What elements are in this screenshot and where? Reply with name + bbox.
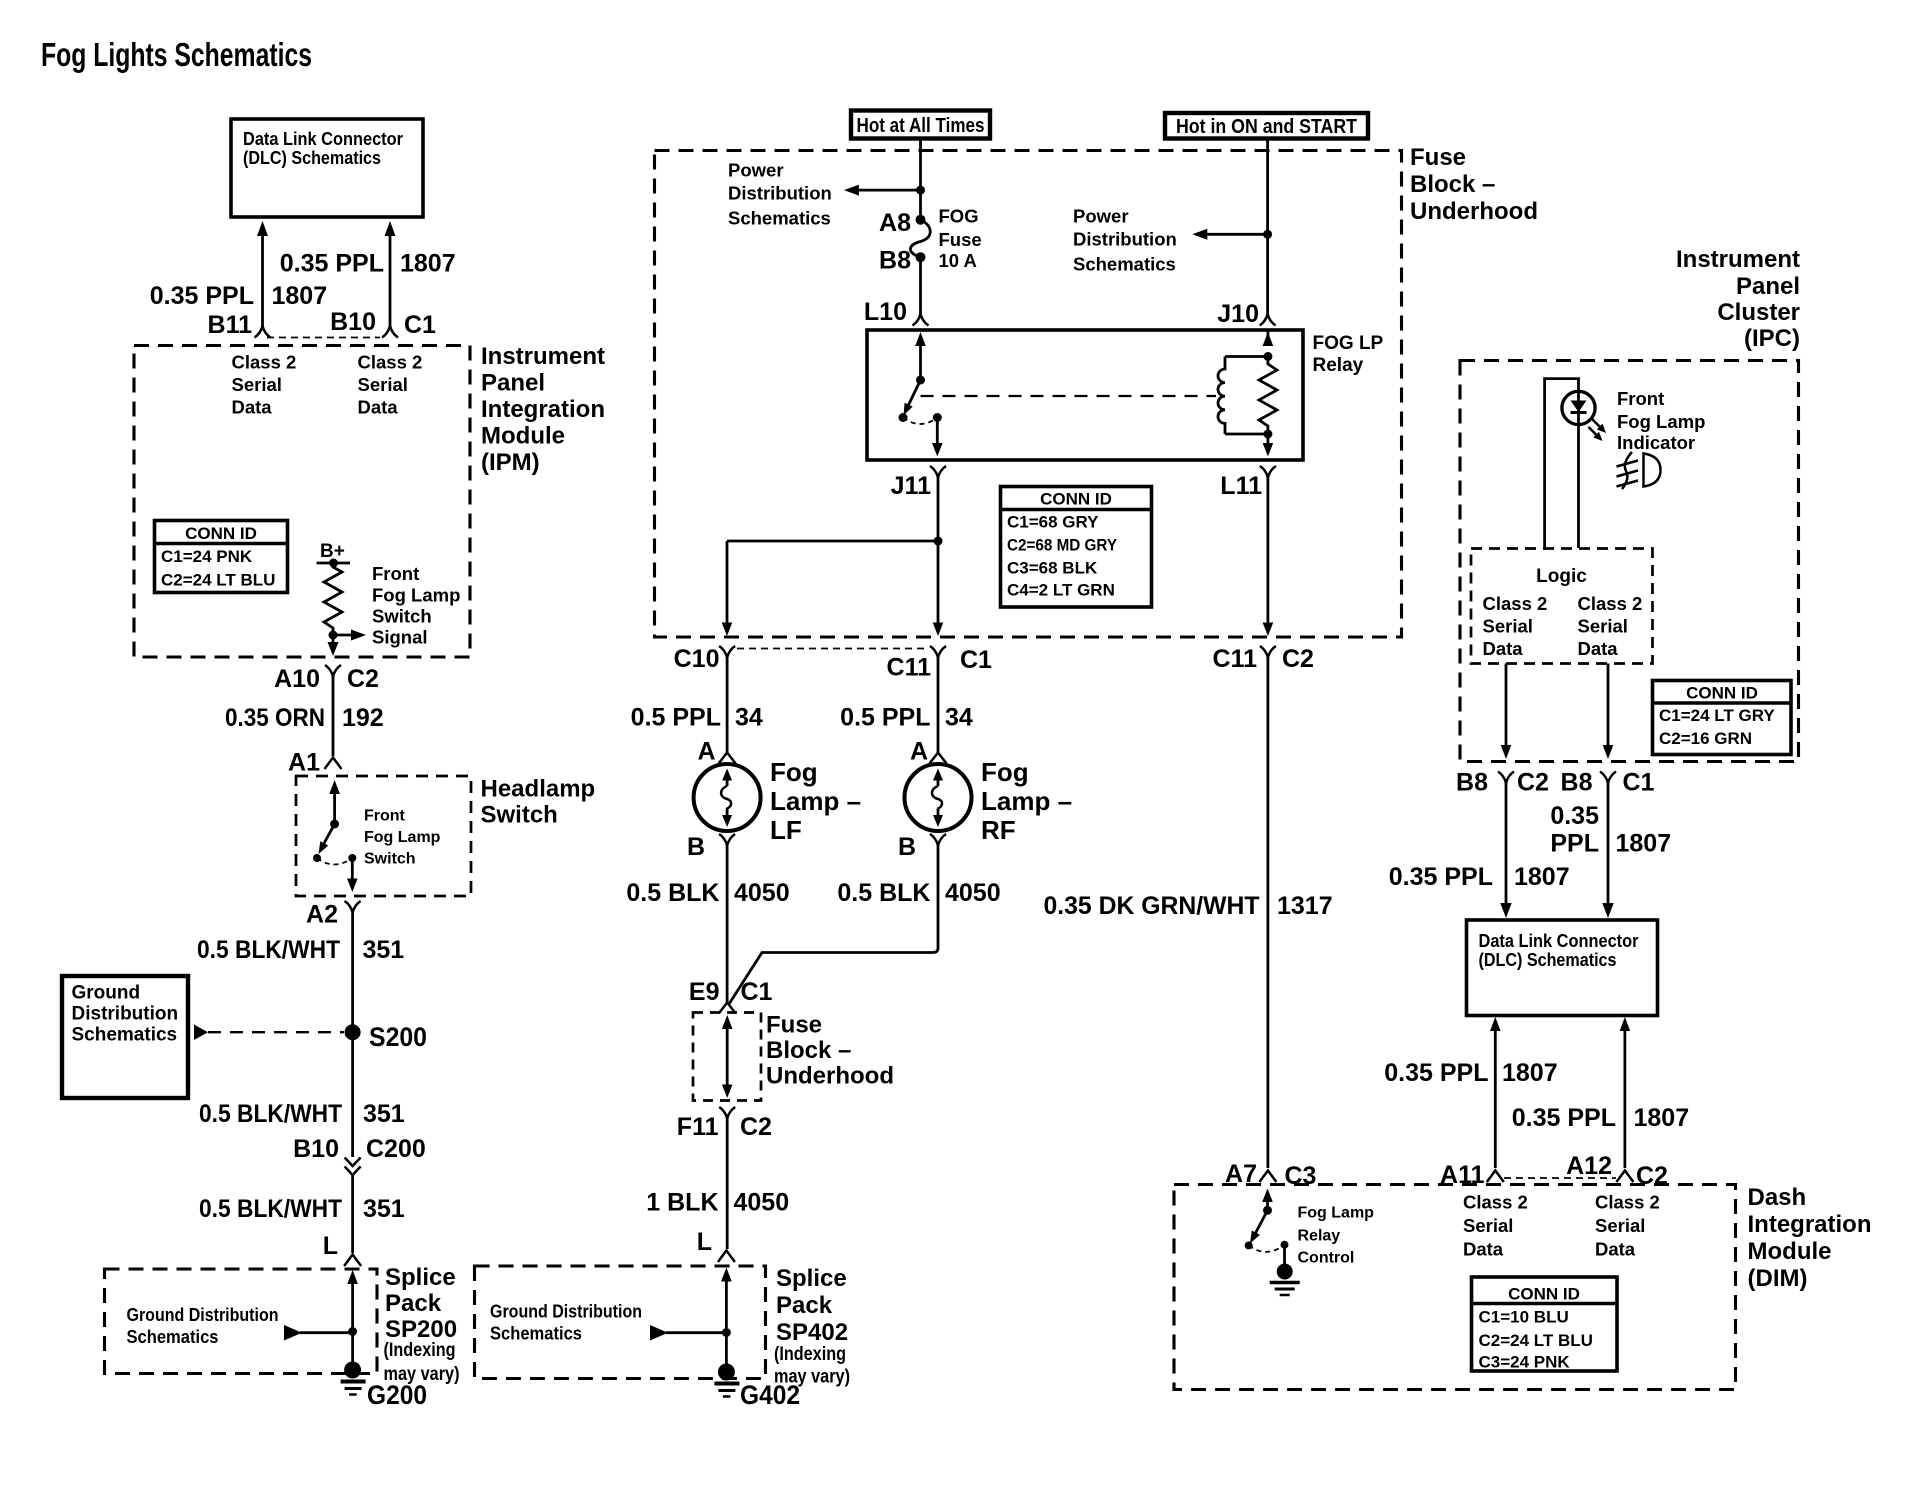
label Headlamp Switch [481, 776, 596, 829]
Splice Pack SP200 box [105, 1269, 378, 1374]
svg-text:Fog Lamp: Fog Lamp [1617, 411, 1705, 432]
svg-text:1807: 1807 [1616, 830, 1672, 858]
label 0.5 PPL 34 (LF) [631, 704, 763, 732]
connector fork J11 [930, 466, 946, 478]
connector fork B (LF) [719, 834, 735, 846]
relay resistor [1259, 330, 1277, 457]
svg-text:Schematics: Schematics [490, 1323, 582, 1344]
svg-text:E9: E9 [689, 978, 720, 1006]
svg-text:B8: B8 [1561, 769, 1593, 797]
svg-text:C3=24 PNK: C3=24 PNK [1479, 1353, 1571, 1372]
label FOG LP Relay [1313, 333, 1384, 376]
svg-text:Underhood: Underhood [766, 1063, 894, 1090]
label Dash Integration Module (DIM) [1748, 1184, 1872, 1292]
wire A10 to A1 [332, 677, 335, 757]
ground G402 [714, 1364, 800, 1411]
connector chevron L (SP200) [344, 1255, 361, 1267]
label Ground Distribution Schematics (SP200) [127, 1304, 279, 1347]
svg-text:S200: S200 [369, 1022, 427, 1052]
svg-text:Pack: Pack [385, 1290, 442, 1317]
svg-text:Integration: Integration [1748, 1211, 1872, 1238]
relay dashed link [921, 395, 1217, 397]
connector chevron A7 [1259, 1171, 1276, 1183]
svg-text:J10: J10 [1217, 300, 1259, 328]
svg-text:A: A [697, 738, 715, 766]
svg-text:Data: Data [1578, 638, 1619, 659]
svg-text:may vary): may vary) [384, 1364, 460, 1385]
svg-text:C11: C11 [887, 654, 932, 682]
wire B8/C1 to DLC [1602, 783, 1613, 918]
wire B10 to DLC left [385, 221, 396, 326]
wire B8 to L10 [919, 257, 922, 314]
svg-text:Front: Front [372, 563, 419, 584]
svg-text:Logic: Logic [1536, 566, 1587, 587]
svg-text:351: 351 [363, 936, 405, 964]
fog lamp pictogram [1617, 452, 1661, 489]
label Front Fog Lamp Indicator [1617, 388, 1705, 453]
svg-text:Fog Lights Schematics: Fog Lights Schematics [41, 36, 312, 73]
svg-text:SP200: SP200 [385, 1316, 457, 1343]
svg-text:C2=24 LT BLU: C2=24 LT BLU [1479, 1331, 1593, 1350]
svg-text:L: L [323, 1232, 338, 1260]
connector fork B10/C1 [382, 326, 398, 338]
label 0.35 PPL 1807 (A11 wire) [1384, 1059, 1557, 1087]
svg-text:A1: A1 [288, 749, 320, 777]
Instrument Panel Integration Module box [134, 346, 470, 658]
label Front Fog Lamp Switch [364, 808, 441, 868]
svg-text:Hot in ON and START: Hot in ON and START [1176, 115, 1357, 138]
svg-text:Relay: Relay [1298, 1228, 1341, 1245]
svg-text:0.5 PPL: 0.5 PPL [840, 704, 930, 732]
svg-text:0.5 BLK: 0.5 BLK [626, 879, 719, 907]
svg-text:Switch: Switch [372, 606, 432, 627]
label 0.5 BLK/WHT 351 [199, 1195, 405, 1223]
svg-text:1807: 1807 [272, 282, 328, 310]
svg-text:CONN ID: CONN ID [1686, 684, 1758, 703]
svg-text:Class 2: Class 2 [1483, 593, 1548, 614]
svg-text:B11: B11 [208, 311, 253, 339]
svg-text:Instrument: Instrument [481, 343, 605, 370]
svg-text:A12: A12 [1566, 1152, 1612, 1180]
svg-text:C1=24 PNK: C1=24 PNK [161, 547, 253, 566]
svg-text:C2: C2 [740, 1113, 772, 1141]
wire B LF down to E9 [726, 846, 729, 1004]
connector dashed line IPM top [267, 337, 380, 339]
Hot in ON and START box [1165, 113, 1368, 139]
svg-text:Block –: Block – [1410, 171, 1495, 198]
svg-text:A8: A8 [879, 209, 911, 237]
connector chevron A11 [1487, 1171, 1504, 1183]
svg-text:C2: C2 [1517, 769, 1549, 797]
label 0.35 PPL 1807 (B11 wire) [150, 282, 327, 310]
svg-text:B8: B8 [1456, 769, 1488, 797]
wire A12 up to DLC [1620, 1017, 1631, 1168]
svg-text:C1: C1 [404, 311, 436, 339]
svg-text:1807: 1807 [1514, 863, 1570, 891]
label Power Distribution Schematics (left) [728, 160, 832, 229]
svg-text:B8: B8 [879, 246, 911, 274]
connector fork L10 [913, 314, 929, 326]
wire C11 to fog lamp RF [937, 658, 940, 756]
wire hot-in-on down [1263, 139, 1272, 315]
svg-text:(DIM): (DIM) [1748, 1265, 1808, 1292]
svg-text:C1=10 BLU: C1=10 BLU [1479, 1308, 1569, 1327]
wire hot-at-all-times down [916, 139, 925, 220]
fog lamp relay control switch (DIM) [1245, 1189, 1289, 1265]
Ground Distribution Schematics box [62, 976, 188, 1098]
Splice Pack SP402 box [475, 1266, 766, 1379]
splice node S200 [345, 1022, 427, 1052]
connector fork C10 [719, 646, 735, 658]
svg-text:Ground: Ground [72, 983, 141, 1004]
svg-text:CONN ID: CONN ID [1040, 490, 1112, 509]
connector fork B8/C2 [1498, 772, 1514, 784]
label 0.5 PPL 34 (RF) [840, 704, 973, 732]
fog lamp LF [694, 764, 761, 831]
svg-text:C1=24 LT GRY: C1=24 LT GRY [1659, 706, 1775, 725]
wire J11 down with branch [722, 478, 944, 637]
svg-text:Serial: Serial [1595, 1215, 1645, 1236]
CONN ID table (DIM) [1472, 1277, 1618, 1372]
svg-text:A10: A10 [274, 665, 320, 693]
svg-text:Schematics: Schematics [728, 208, 831, 229]
label Fuse Block - Underhood (small) [766, 1012, 894, 1090]
svg-text:B: B [687, 833, 705, 861]
svg-text:Module: Module [481, 423, 565, 450]
svg-text:4050: 4050 [734, 879, 790, 907]
wire L11 down [1263, 478, 1274, 637]
LED front fog lamp indicator [1562, 391, 1595, 424]
svg-text:Data: Data [1463, 1239, 1504, 1260]
svg-text:Underhood: Underhood [1410, 198, 1538, 225]
svg-text:FOG LP: FOG LP [1313, 333, 1384, 354]
label Power Distribution Schematics (right) [1073, 206, 1177, 275]
Headlamp Switch box [296, 776, 471, 896]
label 0.5 BLK/WHT 351 [199, 1100, 405, 1128]
connector chevron A12 [1616, 1171, 1633, 1183]
wire A11 up to DLC [1490, 1017, 1501, 1168]
CONN ID table (IPM) [155, 521, 288, 593]
svg-text:0.35 PPL: 0.35 PPL [280, 250, 384, 278]
svg-text:Distribution: Distribution [1073, 229, 1177, 250]
svg-text:Signal: Signal [372, 627, 428, 648]
connector fork F11/C2 [719, 1107, 735, 1119]
relay coil [1218, 352, 1272, 439]
svg-text:C3=68 BLK: C3=68 BLK [1007, 559, 1098, 578]
node B+ [317, 541, 351, 568]
relay switch [899, 332, 943, 457]
svg-text:Fog Lamp: Fog Lamp [1298, 1205, 1375, 1222]
label Instrument Panel Integration Module (IPM) [481, 343, 605, 476]
label Class 2 Serial Data (IPC left) [1483, 593, 1548, 659]
svg-text:1807: 1807 [1634, 1104, 1690, 1132]
svg-text:0.35 ORN: 0.35 ORN [225, 704, 325, 732]
label 0.35 DK GRN/WHT 1317 [1044, 892, 1333, 920]
label Class 2 Serial Data (IPC right) [1578, 593, 1643, 659]
svg-text:Data: Data [358, 397, 399, 418]
svg-text:0.5 BLK/WHT: 0.5 BLK/WHT [199, 1100, 342, 1128]
fuse FOG 10A [910, 215, 930, 263]
svg-text:0.35 PPL: 0.35 PPL [1384, 1059, 1488, 1087]
svg-text:C2=68 MD GRY: C2=68 MD GRY [1007, 536, 1118, 555]
svg-text:C2=24 LT BLU: C2=24 LT BLU [161, 571, 275, 590]
svg-text:4050: 4050 [945, 879, 1001, 907]
label Class 2 Serial Data (IPM right) [358, 352, 423, 418]
svg-text:Serial: Serial [232, 374, 282, 395]
svg-text:Fog Lamp: Fog Lamp [364, 829, 441, 846]
svg-text:Integration: Integration [481, 396, 605, 423]
svg-text:4050: 4050 [734, 1189, 790, 1217]
svg-text:CONN ID: CONN ID [1508, 1285, 1580, 1304]
label Splice Pack SP402 (Indexing may vary) [774, 1265, 850, 1388]
svg-text:C10: C10 [674, 645, 720, 673]
connector fork C11/C2 [1260, 646, 1276, 658]
connector dashed line C10-C11 [737, 648, 929, 650]
svg-text:Block –: Block – [766, 1037, 851, 1064]
svg-text:Data: Data [1595, 1239, 1636, 1260]
label 0.35 PPL 1807 (B10 wire) [280, 250, 456, 278]
connector fork L11 [1260, 466, 1276, 478]
svg-text:Class 2: Class 2 [358, 352, 423, 373]
svg-text:0.5 BLK/WHT: 0.5 BLK/WHT [197, 936, 340, 964]
svg-text:Front: Front [364, 808, 406, 825]
wire logic right down [1603, 664, 1614, 760]
svg-text:C11: C11 [1213, 645, 1258, 673]
connector fork B (RF) [930, 834, 946, 846]
svg-text:Front: Front [1617, 388, 1664, 409]
svg-text:1807: 1807 [400, 250, 456, 278]
Instrument Panel Cluster box [1460, 361, 1799, 762]
svg-text:Panel: Panel [1736, 273, 1800, 300]
ground distribution arrow (SP200) [284, 1325, 353, 1341]
label Splice Pack SP200 (Indexing may vary) [384, 1264, 460, 1385]
connector dashed line A11-A12 [1504, 1177, 1616, 1179]
svg-text:0.35 DK GRN/WHT: 0.35 DK GRN/WHT [1044, 892, 1260, 920]
label Fog Lamp - RF [981, 757, 1072, 845]
wire B8/C2 to DLC [1500, 783, 1511, 918]
svg-text:Serial: Serial [1483, 616, 1533, 637]
Logic box [1471, 549, 1653, 664]
svg-text:Distribution: Distribution [728, 183, 832, 204]
svg-text:Data Link Connector: Data Link Connector [243, 128, 403, 149]
label 0.5 BLK 4050 (LF) [626, 879, 789, 907]
Fuse Block - Underhood box [655, 151, 1402, 638]
svg-text:Ground Distribution: Ground Distribution [127, 1304, 279, 1325]
svg-text:Fuse: Fuse [939, 229, 982, 250]
svg-text:Class 2: Class 2 [1578, 593, 1643, 614]
wire C200 to L [351, 1175, 354, 1253]
svg-text:C4=2 LT GRN: C4=2 LT GRN [1007, 581, 1115, 600]
wire logic left down [1501, 664, 1512, 760]
svg-text:RF: RF [981, 815, 1016, 845]
svg-text:Ground Distribution: Ground Distribution [490, 1301, 642, 1322]
connector fork J10 [1260, 314, 1276, 326]
wire B11 to DLC left [257, 221, 268, 326]
connector chevron L (SP402) [718, 1251, 735, 1263]
fog lamp RF [905, 764, 972, 831]
label 0.35 PPL 1807 (stacked, C1 wire) [1550, 802, 1671, 858]
label Ground Distribution Schematics (SP402) [490, 1301, 642, 1344]
Fuse Block - Underhood small box [693, 1013, 761, 1101]
svg-text:Fog: Fog [770, 757, 818, 787]
svg-text:Lamp –: Lamp – [770, 786, 861, 816]
svg-text:A2: A2 [306, 901, 338, 929]
label 0.35 PPL 1807 (A12 wire) [1512, 1104, 1689, 1132]
svg-text:Hot at All Times: Hot at All Times [857, 114, 985, 137]
indicator loop wire [1545, 379, 1579, 548]
label 1 BLK 4050 [646, 1189, 789, 1217]
svg-text:Power: Power [728, 160, 784, 181]
svg-text:Panel: Panel [481, 370, 545, 397]
resistor (front fog lamp switch signal) [324, 563, 342, 635]
svg-text:Dash: Dash [1748, 1184, 1807, 1211]
svg-text:SP402: SP402 [776, 1319, 848, 1346]
connector chevron A (RF) [930, 753, 947, 764]
svg-text:Switch: Switch [481, 802, 558, 829]
connector fork B11 [255, 326, 271, 338]
label Class 2 Serial Data (DIM left) [1463, 1192, 1528, 1260]
svg-text:Schematics: Schematics [72, 1025, 178, 1046]
label Class 2 Serial Data (DIM right) [1595, 1192, 1660, 1260]
svg-text:Data: Data [232, 397, 273, 418]
svg-text:Schematics: Schematics [1073, 254, 1176, 275]
wire C11/C2 down to A7 [1267, 658, 1270, 1169]
Hot at All Times box [851, 111, 990, 139]
svg-text:Splice: Splice [776, 1265, 847, 1292]
label Fuse Block - Underhood [1410, 144, 1538, 225]
svg-text:Instrument: Instrument [1676, 246, 1800, 273]
connector fork A2 [345, 901, 361, 913]
svg-text:C200: C200 [366, 1135, 426, 1163]
svg-text:Serial: Serial [358, 374, 408, 395]
svg-text:C2: C2 [347, 665, 379, 693]
svg-text:1 BLK: 1 BLK [646, 1189, 718, 1217]
svg-text:Splice: Splice [385, 1264, 456, 1291]
svg-text:L: L [697, 1228, 712, 1256]
Data Link Connector (DLC) Schematics box (left) [231, 119, 423, 217]
svg-text:Serial: Serial [1463, 1215, 1513, 1236]
Data Link Connector (DLC) Schematics box (right) [1467, 920, 1658, 1016]
svg-text:C1: C1 [1623, 769, 1655, 797]
label Instrument Panel Cluster (IPC) [1676, 246, 1800, 352]
svg-text:Fog Lamp: Fog Lamp [372, 585, 460, 606]
svg-text:F11: F11 [677, 1113, 719, 1141]
label 0.35 ORN 192 [225, 704, 384, 732]
SP402 internals wire and arrow [721, 1268, 732, 1370]
svg-text:Fuse: Fuse [1410, 144, 1466, 171]
svg-text:(Indexing: (Indexing [384, 1340, 456, 1361]
svg-text:0.35 PPL: 0.35 PPL [1512, 1104, 1616, 1132]
svg-text:0.35 PPL: 0.35 PPL [1389, 863, 1493, 891]
svg-text:Module: Module [1748, 1238, 1832, 1265]
svg-text:0.35: 0.35 [1550, 802, 1599, 830]
svg-text:Data: Data [1483, 638, 1524, 659]
svg-text:Cluster: Cluster [1717, 299, 1800, 326]
svg-text:Distribution: Distribution [72, 1004, 179, 1025]
svg-text:J11: J11 [891, 472, 931, 500]
LED light arrows [1589, 419, 1607, 441]
svg-text:0.35 PPL: 0.35 PPL [150, 282, 254, 310]
svg-text:L10: L10 [864, 298, 907, 326]
junction dot [329, 631, 338, 640]
svg-text:1807: 1807 [1502, 1059, 1558, 1087]
connector chevron A1 [325, 758, 342, 770]
svg-text:C1=68 GRY: C1=68 GRY [1007, 513, 1099, 532]
svg-text:Control: Control [1298, 1250, 1355, 1267]
svg-text:Lamp –: Lamp – [981, 786, 1072, 816]
svg-text:Serial: Serial [1578, 616, 1628, 637]
svg-text:Switch: Switch [364, 851, 416, 868]
svg-text:Power: Power [1073, 206, 1129, 227]
svg-text:FOG: FOG [939, 206, 979, 227]
svg-text:34: 34 [735, 704, 763, 732]
label FOG Fuse 10 A [939, 206, 982, 272]
svg-text:Relay: Relay [1313, 355, 1364, 376]
connector fork C11/C1 [930, 646, 946, 658]
svg-text:may vary): may vary) [774, 1367, 850, 1388]
front fog lamp switch (headlamp switch internals) [313, 780, 358, 892]
in-line connector C200 (double chevron) [345, 1158, 361, 1176]
svg-text:Indicator: Indicator [1617, 432, 1695, 453]
connector fork B8/C1 [1600, 772, 1616, 784]
svg-text:0.5 PPL: 0.5 PPL [631, 704, 721, 732]
svg-text:Class 2: Class 2 [232, 352, 297, 373]
svg-text:C2: C2 [1282, 645, 1314, 673]
svg-text:C2=16 GRN: C2=16 GRN [1659, 729, 1752, 748]
ground distribution arrow (SP402) [650, 1325, 726, 1341]
connector chevron E9/C1 [719, 1003, 736, 1014]
svg-text:C1: C1 [960, 646, 992, 674]
svg-text:Schematics: Schematics [127, 1326, 219, 1347]
svg-text:Fog: Fog [981, 757, 1029, 787]
connector fork A10/C2 [325, 665, 341, 677]
svg-text:Headlamp: Headlamp [481, 776, 596, 803]
label 0.35 PPL 1807 (C2 wire) [1389, 863, 1570, 891]
svg-text:B: B [898, 833, 916, 861]
svg-text:CONN ID: CONN ID [185, 524, 257, 543]
svg-text:(DLC) Schematics: (DLC) Schematics [243, 147, 381, 168]
wire A2 to C200 [351, 913, 354, 1158]
svg-text:B10: B10 [330, 308, 376, 336]
label Class 2 Serial Data (IPM left) [232, 352, 297, 418]
svg-text:(Indexing: (Indexing [774, 1344, 846, 1365]
svg-text:34: 34 [945, 704, 973, 732]
power distribution arrow (right) [1192, 229, 1267, 240]
fuse block small internals [722, 1015, 733, 1098]
svg-text:192: 192 [342, 704, 384, 732]
label 0.5 BLK 4050 (RF) [837, 879, 1000, 907]
svg-text:10 A: 10 A [939, 250, 977, 271]
svg-text:0.5 BLK: 0.5 BLK [837, 879, 930, 907]
svg-text:Class 2: Class 2 [1463, 1192, 1528, 1213]
ground (DIM) [1270, 1264, 1300, 1296]
signal arrow right [333, 630, 366, 641]
svg-text:351: 351 [363, 1100, 405, 1128]
SP200 internals wire and arrow [347, 1270, 358, 1367]
svg-text:C1: C1 [741, 978, 773, 1006]
svg-text:(IPM): (IPM) [481, 449, 540, 476]
svg-text:(DLC) Schematics: (DLC) Schematics [1479, 949, 1617, 970]
FOG LP Relay box [867, 330, 1303, 460]
svg-text:Data Link Connector: Data Link Connector [1479, 930, 1639, 951]
wire B RF down and left to E9 [729, 846, 938, 1005]
svg-text:351: 351 [363, 1195, 405, 1223]
connector chevron A (LF) [719, 753, 736, 764]
label Front Fog Lamp Switch Signal [372, 563, 460, 648]
svg-text:Fuse: Fuse [766, 1012, 822, 1039]
svg-text:Pack: Pack [776, 1292, 833, 1319]
svg-text:0.5 BLK/WHT: 0.5 BLK/WHT [199, 1195, 342, 1223]
